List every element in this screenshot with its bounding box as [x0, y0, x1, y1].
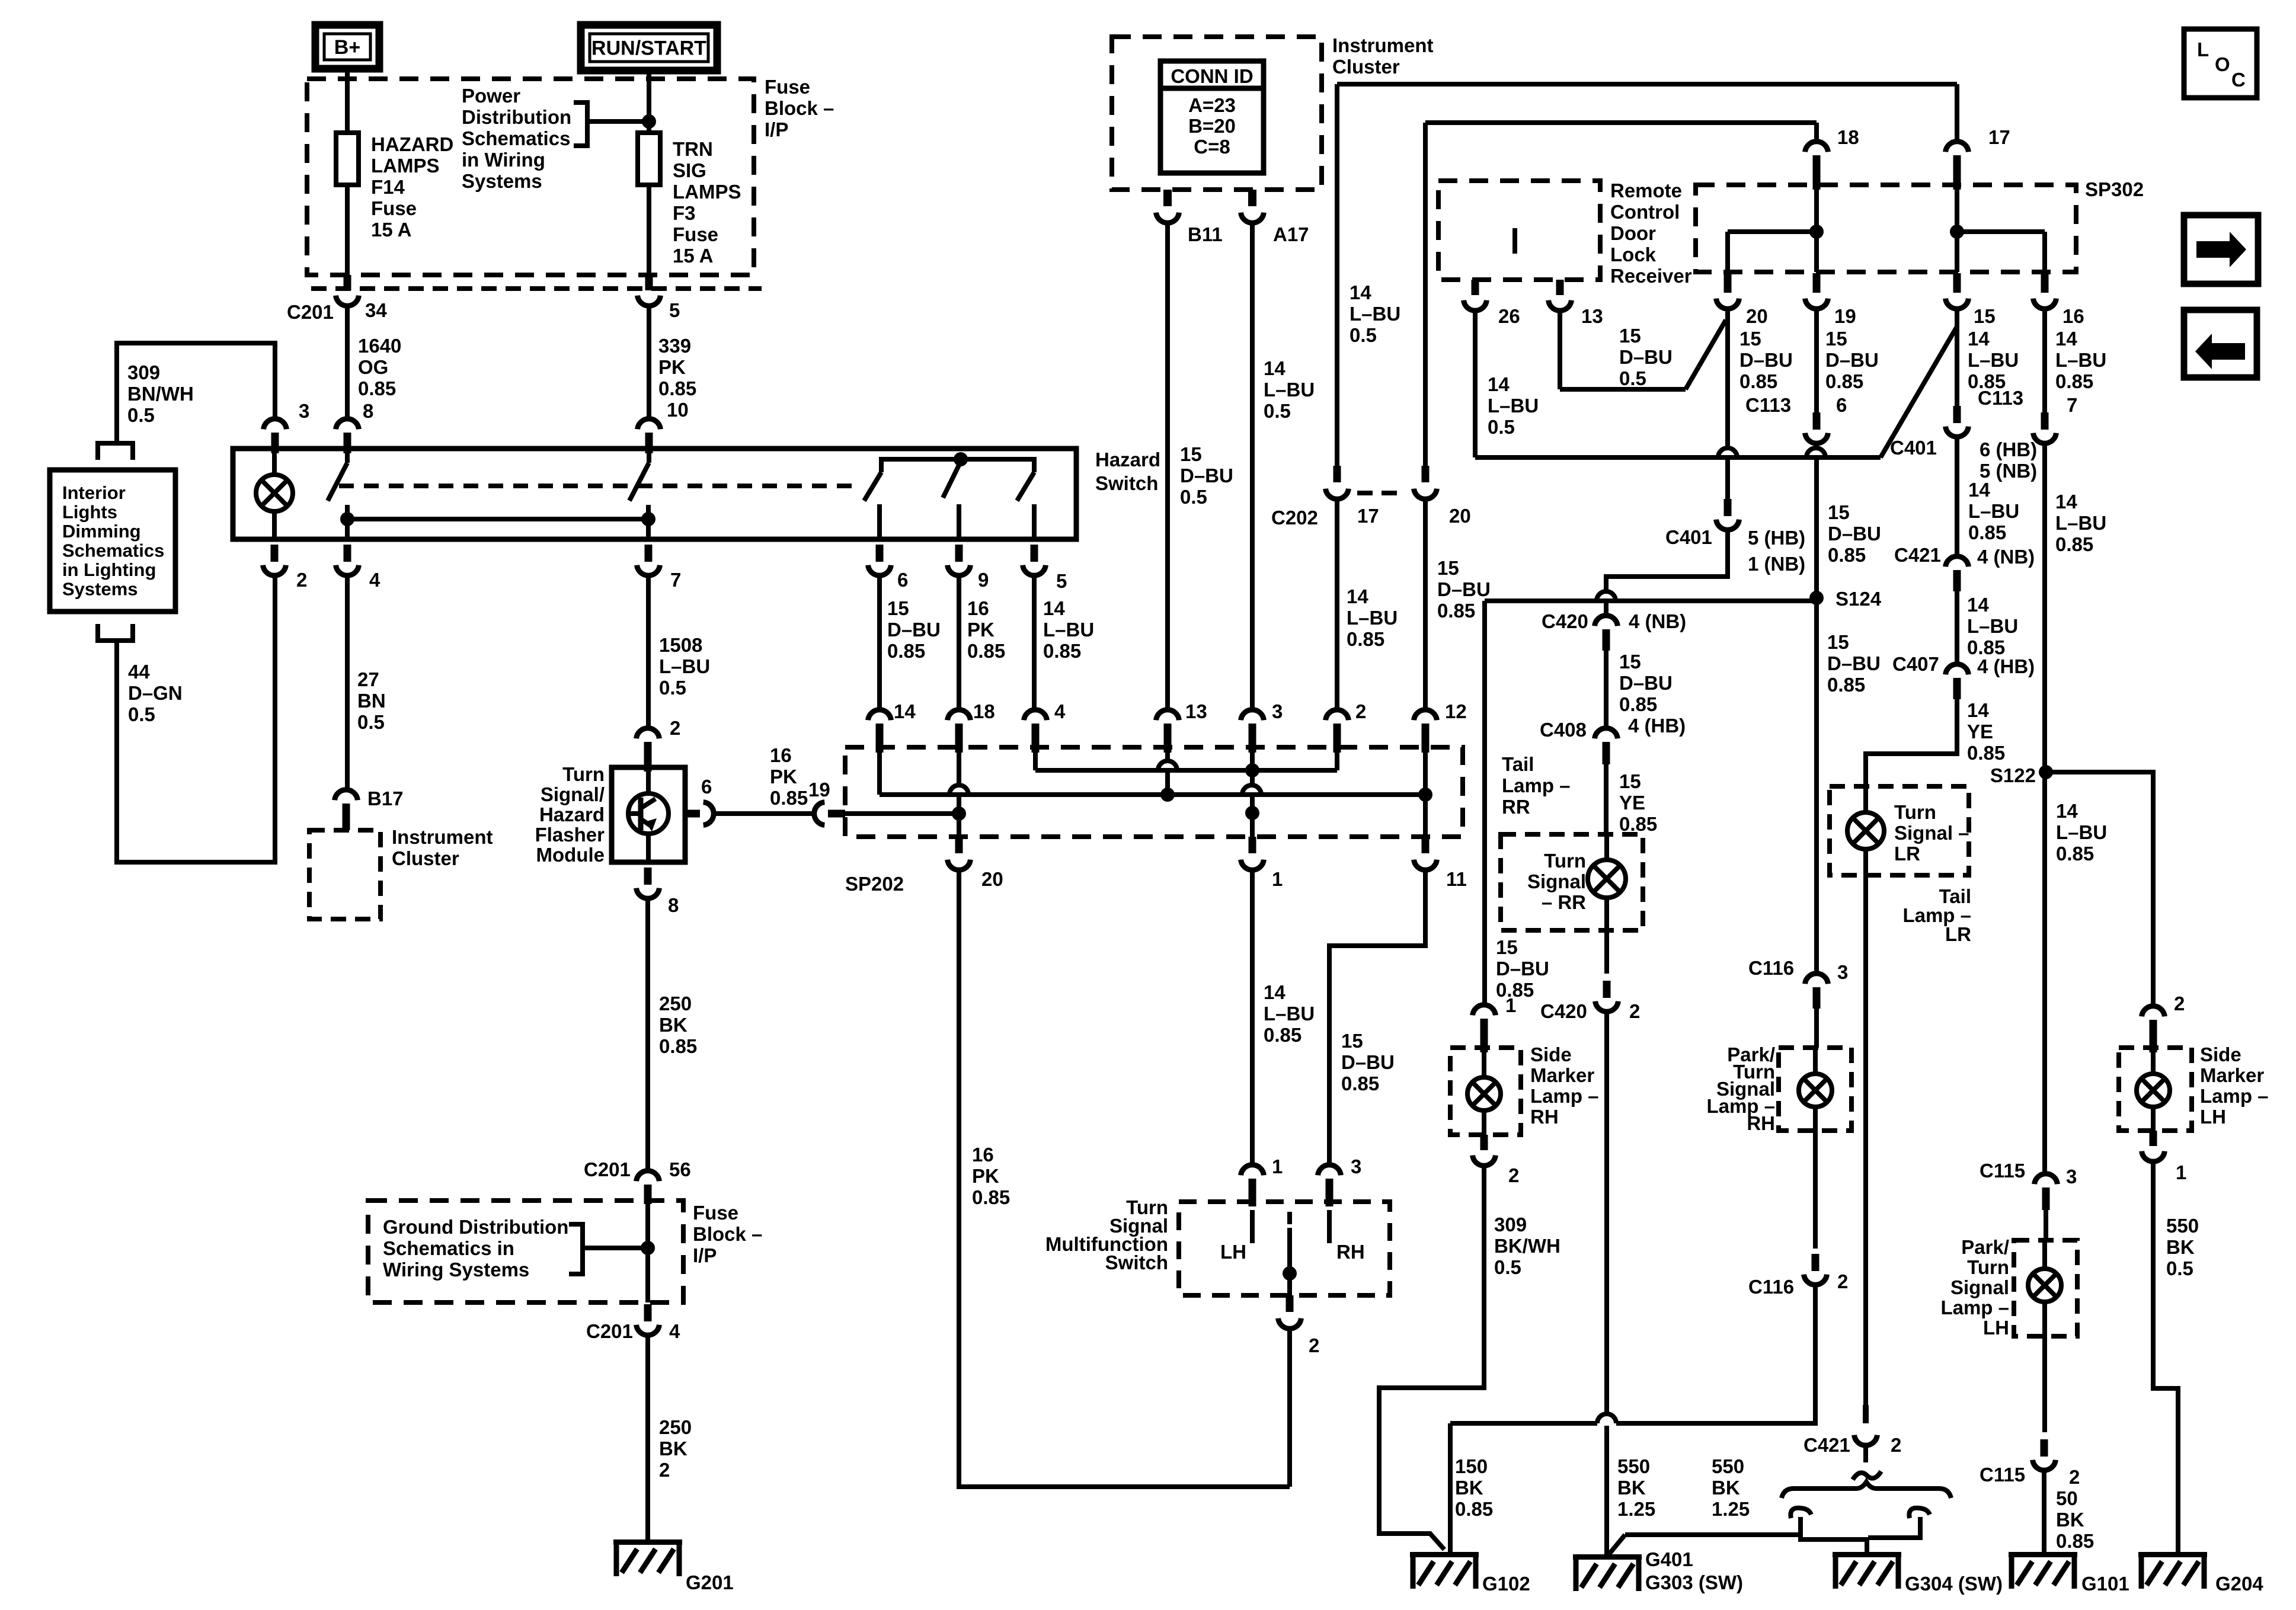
svg-text:Turn: Turn — [1894, 801, 1936, 823]
svg-text:D–BU: D–BU — [1619, 672, 1673, 694]
svg-text:309: 309 — [1494, 1214, 1527, 1235]
svg-text:LR: LR — [1894, 843, 1920, 865]
svg-text:F3: F3 — [673, 202, 696, 224]
svg-text:C421: C421 — [1803, 1434, 1850, 1456]
svg-text:in Wiring: in Wiring — [462, 149, 545, 171]
svg-text:2: 2 — [1837, 1270, 1848, 1292]
svg-text:4: 4 — [669, 1320, 680, 1342]
svg-text:15: 15 — [1825, 328, 1847, 350]
svg-text:13: 13 — [1185, 700, 1207, 722]
svg-text:Signal: Signal — [1527, 870, 1586, 892]
svg-text:C116: C116 — [1748, 1276, 1794, 1298]
svg-text:BK/WH: BK/WH — [1494, 1235, 1560, 1257]
svg-text:Turn: Turn — [1544, 850, 1586, 872]
svg-text:Block –: Block – — [765, 97, 834, 119]
svg-text:B=20: B=20 — [1188, 115, 1236, 137]
svg-text:LAMPS: LAMPS — [371, 155, 440, 177]
svg-text:Power: Power — [462, 85, 520, 107]
svg-text:0.85: 0.85 — [1739, 370, 1777, 392]
svg-text:D–BU: D–BU — [1437, 578, 1491, 600]
svg-text:G201: G201 — [686, 1571, 734, 1593]
svg-text:C113: C113 — [1978, 387, 2023, 409]
svg-text:14: 14 — [1967, 699, 1989, 721]
svg-text:2: 2 — [670, 717, 680, 739]
svg-text:0.5: 0.5 — [1264, 400, 1291, 422]
svg-text:12: 12 — [1445, 700, 1467, 722]
svg-text:Lamp –: Lamp – — [1502, 774, 1571, 796]
svg-text:0.85: 0.85 — [1455, 1498, 1493, 1520]
svg-text:0.85: 0.85 — [2056, 1530, 2094, 1552]
svg-text:0.85: 0.85 — [1827, 674, 1865, 696]
svg-text:15: 15 — [1619, 770, 1641, 792]
svg-text:0.85: 0.85 — [2055, 533, 2093, 555]
svg-text:15: 15 — [1341, 1030, 1363, 1052]
svg-text:B+: B+ — [334, 36, 360, 59]
svg-text:C115: C115 — [1980, 1160, 2025, 1182]
svg-text:15: 15 — [1619, 325, 1641, 347]
svg-text:0.85: 0.85 — [770, 787, 808, 809]
svg-text:SP202: SP202 — [845, 873, 904, 895]
svg-text:14: 14 — [2055, 328, 2077, 350]
svg-text:Lock: Lock — [1610, 244, 1657, 265]
svg-text:G401: G401 — [1645, 1548, 1693, 1570]
svg-text:LH: LH — [1983, 1317, 2009, 1339]
svg-text:550: 550 — [1712, 1455, 1744, 1477]
svg-text:0.5: 0.5 — [1494, 1256, 1521, 1278]
svg-text:Lamp –: Lamp – — [2200, 1085, 2269, 1107]
svg-text:3: 3 — [299, 400, 309, 422]
svg-text:BK: BK — [1617, 1477, 1646, 1499]
svg-text:Side: Side — [2200, 1044, 2241, 1065]
svg-text:15: 15 — [1180, 443, 1202, 465]
svg-text:5: 5 — [669, 299, 680, 321]
svg-text:S122: S122 — [1990, 764, 2036, 786]
svg-text:C420: C420 — [1542, 610, 1588, 632]
svg-text:F14: F14 — [371, 176, 405, 198]
svg-text:Receiver: Receiver — [1610, 265, 1692, 287]
svg-text:1508: 1508 — [659, 634, 702, 656]
svg-text:Turn: Turn — [562, 763, 605, 785]
svg-text:19: 19 — [1834, 305, 1856, 327]
svg-text:L–BU: L–BU — [1967, 615, 2018, 637]
svg-text:Systems: Systems — [462, 170, 542, 192]
svg-text:C420: C420 — [1540, 1000, 1587, 1022]
svg-text:– RR: – RR — [1542, 891, 1586, 913]
svg-text:L: L — [2197, 39, 2209, 60]
svg-text:Instrument: Instrument — [392, 826, 493, 848]
svg-text:L–BU: L–BU — [1264, 1003, 1315, 1025]
svg-text:Side: Side — [1530, 1044, 1572, 1065]
svg-text:BN: BN — [357, 690, 386, 712]
svg-text:0.85: 0.85 — [967, 640, 1005, 662]
svg-text:0.85: 0.85 — [1967, 742, 2005, 764]
svg-text:TRN: TRN — [673, 138, 713, 160]
svg-text:1: 1 — [1505, 994, 1516, 1016]
svg-text:D–BU: D–BU — [1341, 1051, 1395, 1073]
svg-text:0.5: 0.5 — [357, 711, 385, 733]
svg-text:Fuse: Fuse — [765, 76, 810, 98]
svg-text:Hazard: Hazard — [539, 804, 605, 825]
svg-text:16: 16 — [770, 744, 792, 766]
svg-text:LH: LH — [2200, 1106, 2226, 1128]
svg-text:0.85: 0.85 — [1043, 640, 1081, 662]
svg-text:0.5: 0.5 — [2166, 1257, 2193, 1279]
svg-text:16: 16 — [967, 597, 989, 619]
svg-text:Hazard: Hazard — [1095, 449, 1160, 470]
svg-text:4 (NB): 4 (NB) — [1629, 610, 1686, 632]
svg-text:8: 8 — [363, 400, 373, 422]
svg-text:Tail: Tail — [1502, 753, 1534, 775]
svg-text:3: 3 — [1837, 961, 1848, 983]
svg-text:1.25: 1.25 — [1712, 1498, 1750, 1520]
svg-text:2: 2 — [1309, 1334, 1319, 1356]
svg-text:15 A: 15 A — [371, 219, 411, 241]
svg-text:14: 14 — [1264, 357, 1285, 379]
svg-text:L–BU: L–BU — [1347, 607, 1398, 629]
svg-text:2: 2 — [1629, 1000, 1640, 1022]
svg-text:8: 8 — [668, 894, 679, 916]
svg-text:15: 15 — [1619, 651, 1641, 673]
svg-text:O: O — [2215, 53, 2230, 75]
svg-text:0.85: 0.85 — [658, 377, 696, 399]
svg-text:0.5: 0.5 — [127, 404, 155, 426]
svg-text:D–BU: D–BU — [1825, 349, 1879, 371]
svg-text:CONN ID: CONN ID — [1171, 65, 1253, 87]
svg-text:7: 7 — [2067, 394, 2077, 416]
svg-text:SIG: SIG — [673, 159, 706, 181]
svg-text:BN/WH: BN/WH — [127, 383, 194, 405]
svg-text:0.5: 0.5 — [1488, 416, 1515, 438]
svg-text:0.85: 0.85 — [1619, 693, 1657, 715]
svg-text:14: 14 — [1488, 373, 1510, 395]
svg-text:C=8: C=8 — [1194, 136, 1230, 158]
svg-text:6 (HB): 6 (HB) — [1980, 438, 2037, 460]
svg-text:Cluster: Cluster — [392, 847, 459, 869]
svg-text:BK: BK — [1455, 1477, 1483, 1499]
svg-text:Fuse: Fuse — [673, 223, 718, 245]
svg-text:1: 1 — [2176, 1161, 2186, 1183]
svg-text:RH: RH — [1530, 1106, 1559, 1128]
svg-text:I/P: I/P — [765, 119, 788, 140]
svg-text:Schematics in: Schematics in — [383, 1237, 514, 1259]
svg-text:Dimming: Dimming — [62, 521, 141, 542]
svg-text:Fuse: Fuse — [693, 1202, 738, 1224]
svg-text:14: 14 — [1968, 479, 1990, 501]
svg-text:Control: Control — [1610, 201, 1680, 223]
svg-text:Marker: Marker — [1530, 1064, 1594, 1086]
svg-text:D–BU: D–BU — [1828, 523, 1881, 545]
svg-text:SP302: SP302 — [2085, 178, 2144, 200]
svg-text:D–BU: D–BU — [1739, 349, 1793, 371]
svg-text:BK: BK — [2056, 1509, 2084, 1531]
svg-text:Fuse: Fuse — [371, 197, 417, 219]
svg-text:0.5: 0.5 — [1180, 486, 1207, 508]
svg-text:BK: BK — [659, 1438, 687, 1459]
svg-text:4 (NB): 4 (NB) — [1977, 546, 2035, 568]
svg-text:26: 26 — [1498, 305, 1520, 327]
svg-text:Instrument: Instrument — [1332, 34, 1434, 56]
svg-text:Signal: Signal — [1950, 1276, 2009, 1298]
svg-text:C421: C421 — [1894, 544, 1941, 566]
svg-text:L–BU: L–BU — [1968, 349, 2019, 371]
svg-text:Wiring Systems: Wiring Systems — [383, 1259, 529, 1281]
svg-text:G303 (SW): G303 (SW) — [1645, 1571, 1743, 1593]
svg-text:1.25: 1.25 — [1617, 1498, 1655, 1520]
svg-text:C407: C407 — [1892, 653, 1939, 675]
svg-text:B17: B17 — [367, 788, 404, 809]
svg-text:LR: LR — [1945, 923, 1971, 945]
svg-text:L–BU: L–BU — [659, 655, 710, 677]
svg-text:C201: C201 — [586, 1320, 633, 1342]
svg-text:56: 56 — [669, 1158, 691, 1180]
svg-text:2: 2 — [1891, 1434, 1901, 1456]
svg-text:RH: RH — [1336, 1241, 1365, 1263]
svg-text:14: 14 — [1347, 585, 1368, 607]
svg-text:15 A: 15 A — [673, 245, 713, 267]
svg-text:G204: G204 — [2215, 1573, 2263, 1595]
svg-text:150: 150 — [1455, 1455, 1488, 1477]
svg-text:BK: BK — [659, 1014, 687, 1036]
svg-text:0.5: 0.5 — [1619, 367, 1646, 389]
svg-text:G304 (SW): G304 (SW) — [1905, 1573, 2003, 1595]
svg-text:15: 15 — [1828, 501, 1850, 523]
svg-text:Block –: Block – — [693, 1223, 762, 1245]
svg-text:D–BU: D–BU — [887, 619, 941, 641]
svg-text:C113: C113 — [1745, 394, 1791, 416]
svg-text:19: 19 — [808, 779, 830, 801]
svg-text:0.85: 0.85 — [2055, 370, 2093, 392]
svg-text:Door: Door — [1610, 222, 1656, 244]
svg-text:3: 3 — [1351, 1156, 1361, 1177]
svg-text:34: 34 — [365, 299, 387, 321]
svg-text:D–GN: D–GN — [128, 682, 183, 704]
svg-text:0.85: 0.85 — [887, 640, 925, 662]
svg-text:0.85: 0.85 — [1619, 813, 1657, 835]
svg-text:Interior: Interior — [62, 482, 126, 503]
svg-text:44: 44 — [128, 661, 150, 683]
svg-text:YE: YE — [1967, 721, 1993, 742]
svg-text:RH: RH — [1747, 1112, 1775, 1134]
svg-text:5: 5 — [1056, 570, 1067, 592]
svg-text:Schematics: Schematics — [462, 127, 570, 149]
svg-text:15: 15 — [1974, 305, 1996, 327]
svg-text:6: 6 — [1836, 394, 1847, 416]
svg-text:13: 13 — [1581, 305, 1603, 327]
svg-text:Flasher: Flasher — [535, 824, 605, 846]
svg-text:D–BU: D–BU — [1827, 652, 1881, 674]
svg-text:14: 14 — [1043, 597, 1065, 619]
svg-text:Signal –: Signal – — [1894, 822, 1969, 844]
svg-text:2: 2 — [1355, 700, 1366, 722]
svg-text:18: 18 — [973, 700, 995, 722]
svg-text:17: 17 — [1357, 505, 1379, 527]
svg-text:RUN/START: RUN/START — [591, 37, 706, 60]
svg-text:1640: 1640 — [358, 335, 401, 357]
svg-text:I/P: I/P — [693, 1244, 717, 1266]
svg-text:0.5: 0.5 — [128, 703, 155, 725]
svg-text:0.85: 0.85 — [1347, 628, 1384, 650]
svg-text:BK: BK — [1712, 1477, 1740, 1499]
svg-text:6: 6 — [897, 569, 908, 591]
svg-text:1: 1 — [1272, 1156, 1283, 1177]
svg-text:14: 14 — [1967, 594, 1989, 616]
svg-text:Cluster: Cluster — [1332, 56, 1400, 78]
svg-text:Switch: Switch — [1105, 1251, 1168, 1273]
svg-text:15: 15 — [1827, 631, 1849, 653]
svg-text:0.85: 0.85 — [1825, 370, 1863, 392]
svg-text:PK: PK — [770, 766, 797, 788]
svg-text:250: 250 — [659, 1416, 692, 1438]
svg-text:6: 6 — [701, 776, 712, 798]
svg-text:0.85: 0.85 — [1264, 1024, 1302, 1046]
svg-text:C115: C115 — [1980, 1464, 2025, 1486]
svg-text:D–BU: D–BU — [1496, 958, 1549, 980]
svg-text:0.85: 0.85 — [1341, 1073, 1379, 1094]
svg-text:C116: C116 — [1748, 957, 1794, 979]
svg-text:16: 16 — [972, 1144, 994, 1166]
svg-text:C401: C401 — [1665, 526, 1712, 548]
svg-text:L–BU: L–BU — [1264, 379, 1315, 401]
svg-text:G102: G102 — [1482, 1573, 1530, 1595]
svg-text:4: 4 — [369, 569, 380, 591]
svg-text:17: 17 — [1988, 126, 2010, 148]
svg-text:15: 15 — [1496, 936, 1518, 958]
svg-text:C201: C201 — [584, 1158, 631, 1180]
svg-text:14: 14 — [2055, 491, 2077, 513]
svg-text:L–BU: L–BU — [1350, 303, 1400, 325]
svg-text:YE: YE — [1619, 792, 1645, 814]
svg-text:20: 20 — [1449, 505, 1471, 527]
svg-text:0.5: 0.5 — [1350, 324, 1377, 346]
svg-text:16: 16 — [2062, 305, 2084, 327]
svg-text:339: 339 — [658, 335, 691, 357]
svg-text:HAZARD: HAZARD — [371, 133, 453, 155]
svg-text:50: 50 — [2056, 1487, 2078, 1509]
svg-text:15: 15 — [1437, 557, 1459, 579]
svg-text:LAMPS: LAMPS — [673, 181, 741, 203]
svg-text:L–BU: L–BU — [2055, 349, 2106, 371]
svg-text:L–BU: L–BU — [2056, 821, 2107, 843]
svg-text:C401: C401 — [1890, 437, 1937, 459]
svg-text:BK: BK — [2166, 1236, 2195, 1258]
svg-text:1 (NB): 1 (NB) — [1748, 553, 1805, 575]
svg-text:2: 2 — [1508, 1164, 1519, 1186]
svg-text:0.85: 0.85 — [2056, 843, 2094, 865]
svg-text:0.85: 0.85 — [1968, 521, 2006, 543]
svg-text:9: 9 — [978, 569, 989, 591]
svg-text:LH: LH — [1220, 1241, 1246, 1263]
svg-text:L–BU: L–BU — [2055, 512, 2106, 534]
svg-text:15: 15 — [887, 597, 909, 619]
svg-text:14: 14 — [1968, 328, 1990, 350]
svg-text:D–BU: D–BU — [1180, 465, 1233, 486]
svg-text:Ground Distribution: Ground Distribution — [383, 1216, 568, 1238]
svg-text:7: 7 — [670, 569, 681, 591]
svg-text:20: 20 — [981, 868, 1003, 890]
svg-text:Remote: Remote — [1610, 180, 1682, 201]
svg-text:550: 550 — [1617, 1455, 1650, 1477]
svg-text:0.85: 0.85 — [1828, 544, 1866, 566]
svg-text:L–BU: L–BU — [1043, 619, 1094, 641]
svg-text:15: 15 — [1739, 328, 1761, 350]
svg-text:0.5: 0.5 — [659, 677, 686, 699]
svg-text:C408: C408 — [1540, 719, 1587, 741]
svg-text:A17: A17 — [1273, 223, 1309, 245]
svg-text:550: 550 — [2166, 1215, 2199, 1237]
svg-text:Schematics: Schematics — [62, 540, 164, 561]
svg-text:Distribution: Distribution — [462, 106, 571, 128]
svg-text:PK: PK — [972, 1165, 999, 1187]
svg-text:Module: Module — [536, 844, 605, 866]
svg-text:4: 4 — [1054, 700, 1066, 722]
svg-text:in Lighting: in Lighting — [62, 559, 156, 580]
svg-text:PK: PK — [967, 619, 994, 641]
svg-text:20: 20 — [1746, 305, 1768, 327]
svg-text:4 (HB): 4 (HB) — [1628, 715, 1686, 737]
svg-text:3: 3 — [1272, 700, 1283, 722]
svg-text:Signal/: Signal/ — [541, 783, 605, 805]
svg-text:L–BU: L–BU — [1968, 500, 2019, 522]
svg-text:OG: OG — [358, 356, 388, 378]
svg-text:Lights: Lights — [62, 502, 117, 523]
svg-text:C202: C202 — [1271, 507, 1318, 529]
svg-text:2: 2 — [2069, 1466, 2080, 1488]
svg-text:C201: C201 — [287, 301, 334, 323]
svg-text:2: 2 — [296, 569, 307, 591]
svg-text:1: 1 — [1272, 868, 1283, 890]
svg-text:27: 27 — [357, 668, 379, 690]
svg-text:4 (HB): 4 (HB) — [1977, 655, 2035, 677]
svg-text:Systems: Systems — [62, 579, 138, 600]
svg-text:14: 14 — [894, 700, 916, 722]
svg-text:RR: RR — [1502, 796, 1530, 818]
svg-text:Switch: Switch — [1095, 472, 1158, 494]
svg-text:0.85: 0.85 — [659, 1035, 697, 1057]
svg-text:14: 14 — [1264, 981, 1285, 1003]
svg-text:A=23: A=23 — [1188, 94, 1236, 116]
svg-text:309: 309 — [127, 361, 160, 383]
svg-text:Marker: Marker — [2200, 1064, 2264, 1086]
svg-text:3: 3 — [2066, 1166, 2077, 1188]
svg-text:PK: PK — [658, 356, 686, 378]
svg-text:2: 2 — [659, 1459, 670, 1481]
svg-text:L–BU: L–BU — [1488, 395, 1539, 417]
svg-text:18: 18 — [1837, 126, 1859, 148]
svg-text:250: 250 — [659, 993, 692, 1014]
svg-text:Park/: Park/ — [1961, 1236, 2009, 1258]
svg-text:0.85: 0.85 — [972, 1186, 1010, 1208]
svg-text:0.85: 0.85 — [1437, 600, 1475, 622]
svg-text:10: 10 — [667, 399, 689, 421]
svg-text:14: 14 — [2056, 800, 2078, 822]
svg-text:5 (HB): 5 (HB) — [1748, 527, 1805, 549]
svg-text:2: 2 — [2174, 993, 2185, 1014]
svg-text:D–BU: D–BU — [1619, 346, 1673, 368]
svg-text:11: 11 — [1446, 868, 1467, 890]
svg-text:14: 14 — [1350, 281, 1371, 303]
svg-text:G101: G101 — [2081, 1573, 2129, 1595]
svg-text:S124: S124 — [1835, 588, 1882, 610]
svg-text:Turn: Turn — [1967, 1256, 2009, 1278]
svg-text:Lamp –: Lamp – — [1940, 1297, 2009, 1318]
svg-text:Lamp –: Lamp – — [1530, 1085, 1599, 1107]
svg-text:B11: B11 — [1188, 223, 1223, 245]
svg-text:0.85: 0.85 — [358, 377, 396, 399]
svg-text:C: C — [2231, 69, 2246, 91]
